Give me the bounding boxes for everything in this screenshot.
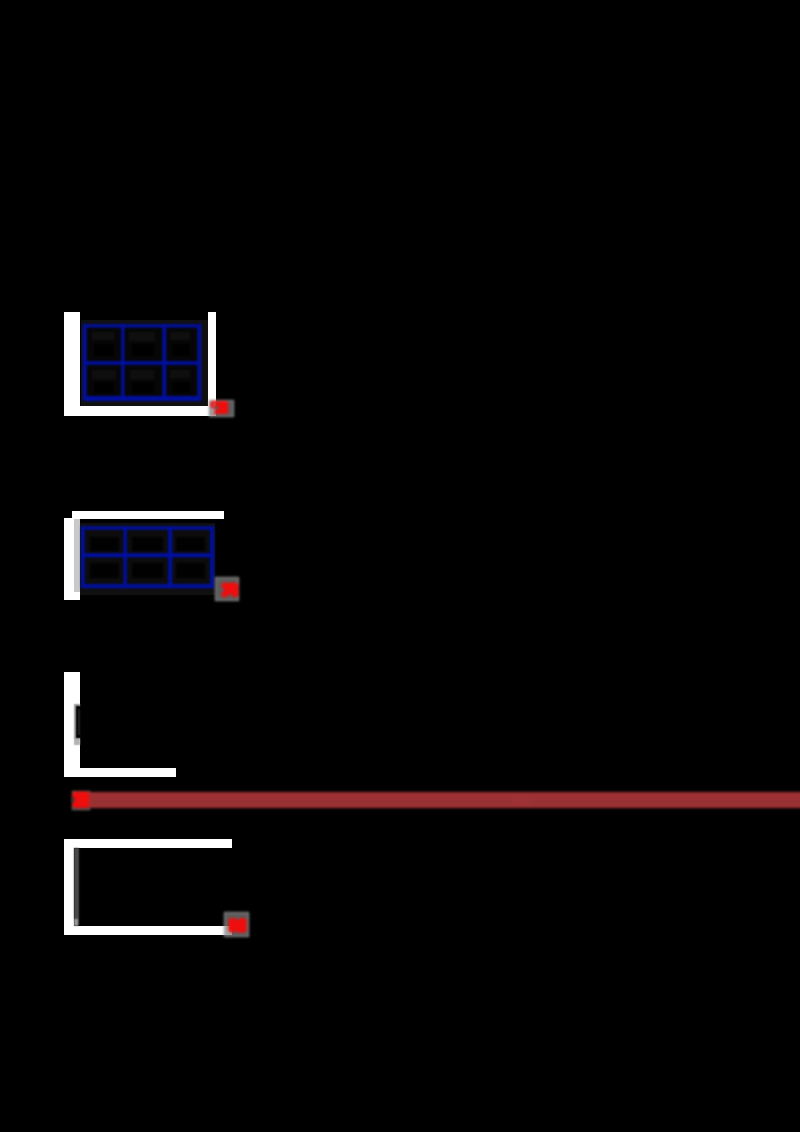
image 1: icon gray box bbox=[209, 400, 234, 418]
image 4: white frame bottom strip bbox=[64, 926, 232, 935]
image 3: thumbnail black box bbox=[76, 706, 81, 738]
image 3: light gray shadow block bbox=[74, 739, 80, 745]
image 4: inner light gray sliver bbox=[74, 919, 78, 926]
image 2: white frame left strip bbox=[64, 518, 80, 601]
image 4: white frame left strip bbox=[64, 839, 74, 935]
image 1: white frame right strip bbox=[208, 312, 216, 415]
red bar: faint darker text smudges bbox=[92, 800, 512, 805]
image 1: white frame bottom strip bbox=[64, 406, 216, 416]
image 3: white frame left strip bbox=[64, 672, 80, 777]
image 1: white frame left strip bbox=[64, 312, 80, 416]
image 3: small dark thumbnail with shadow bbox=[70, 700, 86, 750]
image 1: broken-image icon (gray box, red 9, red blob) bbox=[200, 390, 245, 426]
image 4: red X blob bbox=[227, 916, 248, 934]
image 4: icon gray box bbox=[224, 912, 249, 937]
image 4: inner gray shadow line bbox=[70, 840, 84, 935]
red bar bbox=[89, 792, 800, 808]
image 2: red X blob bbox=[220, 581, 240, 599]
image 1: white frame (left, right, bottom strips) bbox=[0, 0, 800, 500]
image 2: blue table grid bbox=[76, 520, 218, 598]
image 3: white frame bottom strip bbox=[64, 768, 176, 777]
image 1: red X blob bbox=[215, 399, 231, 417]
image 2: gray shadow strip bbox=[74, 519, 80, 592]
image 3: white frame (left, bottom strips) bbox=[0, 650, 800, 790]
image 2: dark cell text blobs bbox=[90, 537, 205, 578]
image 2: icon gray box bbox=[215, 577, 239, 601]
image 3: thumbnail gray backing bbox=[74, 704, 81, 739]
image 2: broken-image icon (gray box + red blob) bbox=[206, 567, 251, 612]
image 4: broken-image icon (gray box + red blob) bbox=[215, 902, 260, 947]
image 4: white frame (top, left, bottom strips) bbox=[0, 820, 800, 960]
red bar: red X blob bbox=[71, 790, 91, 810]
image 2: white frame (top, left strips) bbox=[0, 480, 800, 620]
red bar: broken-image icon gray box bbox=[72, 791, 90, 810]
red bar row bbox=[60, 780, 800, 820]
image 1: blue table grid bbox=[78, 318, 210, 410]
image 2: white frame top strip bbox=[72, 511, 224, 520]
image 3: thumbnail interior bbox=[78, 709, 80, 735]
image 2: dark table background bbox=[80, 523, 215, 595]
image 4: white frame top strip bbox=[64, 839, 232, 848]
image 1: faint cell marks bbox=[92, 332, 190, 379]
image 1: dark table background bbox=[81, 320, 208, 406]
image 1: red digit 9 bbox=[210, 400, 220, 416]
